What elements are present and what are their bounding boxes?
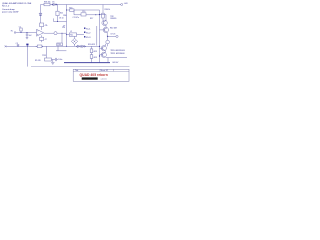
inductor L2 bbox=[67, 31, 85, 37]
resistor R39 bbox=[56, 11, 63, 15]
wire to output bbox=[108, 35, 116, 37]
wire bbox=[61, 33, 63, 46]
op-amp IC1 bbox=[37, 29, 44, 36]
wire bbox=[16, 32, 37, 34]
svg-text:R30 1k: R30 1k bbox=[105, 9, 111, 11]
wire bbox=[56, 46, 66, 51]
wire bbox=[106, 57, 127, 59]
note text block top-left bbox=[2, 2, 32, 13]
wire bus bbox=[67, 9, 100, 11]
ground bbox=[51, 60, 54, 65]
svg-text:R9 470: R9 470 bbox=[35, 60, 41, 62]
wire lower bus bbox=[6, 45, 100, 47]
wire bbox=[46, 46, 48, 58]
wire bbox=[104, 44, 106, 58]
svg-text:TR11 MJ15003: TR11 MJ15003 bbox=[110, 53, 125, 55]
svg-text:TR10 MJ15003: TR10 MJ15003 bbox=[110, 50, 125, 52]
wire op-amp output bbox=[44, 32, 67, 34]
logo bbox=[82, 77, 98, 79]
svg-text:C1: C1 bbox=[19, 26, 21, 28]
svg-text:100u: 100u bbox=[58, 59, 62, 61]
resistor R12 bbox=[57, 43, 63, 46]
diode D10 bbox=[82, 45, 86, 47]
node input terminal bbox=[11, 31, 16, 34]
node output terminal bbox=[116, 35, 118, 37]
capacitor C1 bbox=[19, 26, 22, 33]
wire bbox=[107, 58, 109, 63]
svg-text:C3: C3 bbox=[16, 43, 18, 45]
svg-text:Rev 1.0: Rev 1.0 bbox=[2, 6, 10, 8]
fuse FS1 bbox=[36, 45, 43, 48]
resistor R4 bbox=[40, 23, 48, 30]
svg-text:Sheet 1/1: Sheet 1/1 bbox=[101, 69, 109, 72]
wire bbox=[96, 26, 98, 46]
svg-text:C8 1n: C8 1n bbox=[59, 18, 64, 20]
node output junction bbox=[107, 36, 108, 37]
title block bbox=[73, 69, 129, 82]
svg-text:QUAD 405 reborn: QUAD 405 reborn bbox=[80, 73, 108, 77]
wire bbox=[102, 5, 104, 14]
wire bbox=[100, 15, 107, 28]
svg-text:R17: R17 bbox=[90, 18, 93, 20]
wire bbox=[91, 46, 93, 62]
ground bbox=[26, 38, 29, 40]
capacitor C3 bbox=[16, 43, 20, 47]
svg-text:22k: 22k bbox=[62, 27, 65, 29]
wire bbox=[102, 18, 104, 20]
resistor R15 bbox=[69, 7, 74, 11]
wire mid rail bbox=[66, 5, 68, 47]
resistor R21 bbox=[90, 49, 97, 53]
resistor R22 bbox=[90, 55, 97, 59]
svg-text:R16: R16 bbox=[63, 15, 66, 17]
capacitor C4 bbox=[26, 44, 28, 47]
wire bbox=[54, 18, 67, 22]
node junction bbox=[99, 14, 100, 15]
node junction bbox=[95, 14, 96, 15]
svg-text:R40 10R: R40 10R bbox=[110, 28, 118, 30]
capacitor C9 bbox=[106, 40, 110, 44]
wire left rail bbox=[40, 5, 42, 24]
capacitor C5 bbox=[55, 58, 62, 61]
svg-text:R15: R15 bbox=[69, 7, 72, 9]
svg-text:0R3: 0R3 bbox=[94, 57, 97, 59]
resistor R6 bbox=[40, 35, 47, 42]
svg-text:Title: Title bbox=[75, 69, 78, 72]
power rail -50V bbox=[64, 62, 119, 64]
wire right rail bbox=[99, 10, 101, 63]
wire bbox=[107, 36, 109, 40]
node supply bbox=[103, 3, 129, 5]
svg-text:power amp 100W: power amp 100W bbox=[2, 11, 18, 14]
svg-text:2N3055: 2N3055 bbox=[110, 18, 116, 20]
node junction bbox=[66, 46, 67, 47]
transistor TR10 bbox=[100, 46, 107, 51]
wire stub bbox=[57, 5, 59, 12]
svg-text:0R3: 0R3 bbox=[94, 51, 97, 53]
svg-text:R20 0R3: R20 0R3 bbox=[88, 44, 95, 46]
bridge B1 bbox=[71, 36, 77, 46]
capacitor C2 bbox=[26, 32, 28, 38]
wire bbox=[57, 16, 59, 22]
svg-text:47k: 47k bbox=[45, 25, 48, 27]
svg-text:R38 15k: R38 15k bbox=[44, 2, 51, 4]
node junction bbox=[99, 46, 100, 47]
node junction bbox=[66, 34, 67, 35]
wire bbox=[26, 46, 28, 66]
net flag X1-3 bbox=[84, 36, 91, 39]
diode D6 bbox=[52, 2, 58, 6]
svg-text:-50V 0V: -50V 0V bbox=[112, 62, 119, 64]
transistor TR11 bbox=[100, 52, 107, 57]
resistor R30 bbox=[102, 9, 111, 18]
node terminal bbox=[5, 45, 7, 47]
net flag X1-2 bbox=[84, 32, 91, 35]
transistor TR9 bbox=[102, 16, 116, 26]
svg-text:47: 47 bbox=[45, 39, 47, 41]
frame bottom border bbox=[31, 66, 130, 68]
svg-text:C11 47n: C11 47n bbox=[73, 17, 80, 19]
lamp junction circle bbox=[54, 32, 57, 35]
node junction bbox=[61, 32, 64, 35]
wire bbox=[107, 44, 109, 47]
resistor R10 bbox=[45, 58, 56, 61]
resistor R38 bbox=[44, 2, 51, 6]
svg-text:D7: D7 bbox=[63, 25, 65, 27]
node junction bbox=[99, 55, 100, 56]
wire top rail bbox=[41, 4, 104, 6]
capacitor C10 bbox=[81, 11, 86, 16]
svg-text:RL1: RL1 bbox=[70, 35, 73, 37]
diode D5 bbox=[39, 13, 42, 15]
svg-text:2n2: 2n2 bbox=[29, 35, 32, 37]
wire bbox=[100, 30, 108, 37]
svg-text:C10: C10 bbox=[82, 11, 85, 13]
node junction bbox=[66, 10, 67, 11]
net flag X1-1 bbox=[84, 28, 91, 31]
wire bbox=[74, 10, 100, 15]
svg-text:C9 LS: C9 LS bbox=[110, 34, 116, 36]
svg-text:L2: L2 bbox=[70, 31, 72, 33]
diode D9 bbox=[76, 45, 80, 47]
transistor TR9b bbox=[103, 27, 108, 32]
